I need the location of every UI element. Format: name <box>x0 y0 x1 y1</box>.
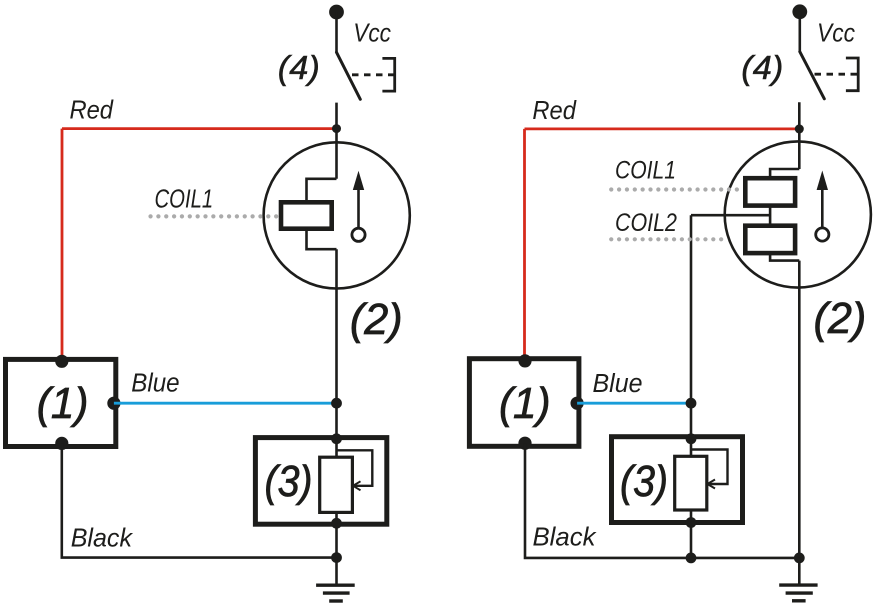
terminal dot box3 bottom (right) <box>686 517 697 528</box>
wire: Vcc stem (left) <box>335 12 338 52</box>
wire junction to ground (left) <box>335 558 338 586</box>
terminal dot box3 bottom (left) <box>331 518 342 529</box>
red wire vertical (right) <box>523 129 526 360</box>
svg-text:(4): (4) <box>278 49 320 86</box>
potentiometer body (right) <box>675 456 707 510</box>
black wire box1 to ground bus (right) <box>525 443 799 558</box>
pot wiper feedback path (left) <box>337 450 373 486</box>
wire: meter bottom to ground bus (right) <box>798 261 801 558</box>
svg-text:Black: Black <box>71 523 134 553</box>
terminal dot box1 right (right) <box>571 397 584 410</box>
wire: coil bottom step (left) <box>307 229 337 250</box>
wire: inter-coil connector (right) <box>769 206 772 226</box>
terminal dot box1 top (right) <box>518 354 531 367</box>
red wire horizontal (left) <box>62 127 337 130</box>
terminal dot box1 bottom (left) <box>55 437 68 450</box>
potentiometer body (left) <box>320 457 353 512</box>
svg-text:(3): (3) <box>620 457 668 506</box>
svg-text:(1): (1) <box>37 379 89 428</box>
wire: switch to meter (left) <box>335 103 338 179</box>
Vcc terminal dot (left) <box>329 5 344 20</box>
meter (2) body circle (right) <box>725 141 871 287</box>
svg-text:Blue: Blue <box>593 370 643 398</box>
pot wiper arrowhead (left) <box>353 481 361 490</box>
junction dot blue/axis (left) <box>331 398 342 409</box>
svg-text:COIL1: COIL1 <box>155 183 214 213</box>
svg-text:Red: Red <box>532 95 577 125</box>
wire: switch to meter (right) <box>798 102 801 169</box>
junction dot ground bus (right) <box>794 553 805 564</box>
wire: COIL2 tap horizontal (right) <box>691 214 770 217</box>
svg-text:Blue: Blue <box>131 370 179 398</box>
junction dot blue/tap (right) <box>686 398 697 409</box>
wire: COIL2 tap vertical (right) <box>690 215 693 439</box>
meter pointer hub (right) <box>816 228 829 241</box>
svg-text:(2): (2) <box>350 295 403 344</box>
svg-text:Vcc: Vcc <box>353 18 391 48</box>
box (3) pot assembly (right) <box>612 437 743 523</box>
coil COIL2 element (right) <box>745 226 795 253</box>
terminal dot box1 top (left) <box>55 355 68 368</box>
wire pot top/bottom stubs (left) <box>335 438 338 457</box>
terminal dot box1 right (left) <box>107 397 120 410</box>
switch (4) blade (left) <box>337 52 361 99</box>
meter pointer arrowhead (right) <box>817 171 828 191</box>
switch actuator bracket (right) <box>846 58 858 91</box>
red wire horizontal (right) <box>525 127 800 130</box>
junction dot ground bus (left) <box>331 552 342 563</box>
box (1) driver (right) <box>469 359 579 447</box>
ground symbol (left) <box>316 584 355 587</box>
wire pot top/bottom stubs (right) <box>690 439 693 457</box>
svg-text:(1): (1) <box>499 379 551 428</box>
meter (2) body circle (left) <box>264 142 410 288</box>
Vcc terminal dot (right) <box>792 4 807 19</box>
terminal dot box1 bottom (right) <box>518 437 531 450</box>
blue wire (right) <box>577 402 691 405</box>
junction dot black/tap (right) <box>686 553 697 564</box>
svg-text:(3): (3) <box>265 457 313 506</box>
switch actuator bracket (left) <box>382 58 394 91</box>
svg-text:Black: Black <box>533 522 598 552</box>
svg-text:COIL1: COIL1 <box>615 156 676 184</box>
coil COIL1 element (right) <box>745 178 795 205</box>
pot wiper feedback path (right) <box>691 450 728 485</box>
COIL1 leader dotted line (right) <box>611 187 737 191</box>
coil COIL1 element (left) <box>281 202 332 228</box>
black wire box1 to ground bus (left) <box>62 443 337 557</box>
terminal dot box3 top (right) <box>686 433 697 444</box>
svg-text:(4): (4) <box>741 49 783 86</box>
box (1) driver (left) <box>6 359 116 446</box>
box (3) pot assembly (left) <box>255 438 386 525</box>
switch (4) blade (right) <box>800 52 825 99</box>
ground symbol (right) <box>779 583 817 586</box>
meter pointer needle (left) <box>357 188 360 228</box>
switch actuator dashed link (right) <box>815 73 858 76</box>
red wire vertical (left) <box>61 129 64 361</box>
wire: coil top step (left) <box>307 179 337 203</box>
COIL2 leader dotted line (right) <box>611 237 727 241</box>
svg-text:Vcc: Vcc <box>817 17 855 47</box>
wire: meter bottom to pot box (left) <box>335 249 338 438</box>
svg-text:Red: Red <box>70 95 115 125</box>
wire junction to ground (right) <box>798 558 801 585</box>
junction dot red/axis (right) <box>795 124 804 133</box>
meter pointer arrowhead (left) <box>353 171 364 190</box>
meter pointer hub (left) <box>352 228 365 241</box>
svg-text:(2): (2) <box>814 294 867 343</box>
pot wiper arrowhead (right) <box>707 480 715 489</box>
wire: coil2 bottom step (right) <box>770 253 799 261</box>
switch actuator dashed link (left) <box>352 73 394 76</box>
wire: coil1 top step (right) <box>770 169 799 178</box>
junction dot red/axis (left) <box>332 124 341 133</box>
svg-text:COIL2: COIL2 <box>615 209 677 237</box>
COIL1 leader dotted line (left) <box>151 214 279 218</box>
meter pointer needle (right) <box>821 188 824 228</box>
wire: Vcc stem (right) <box>798 12 801 52</box>
terminal dot box3 top (left) <box>331 433 342 444</box>
blue wire (left) <box>114 402 337 405</box>
